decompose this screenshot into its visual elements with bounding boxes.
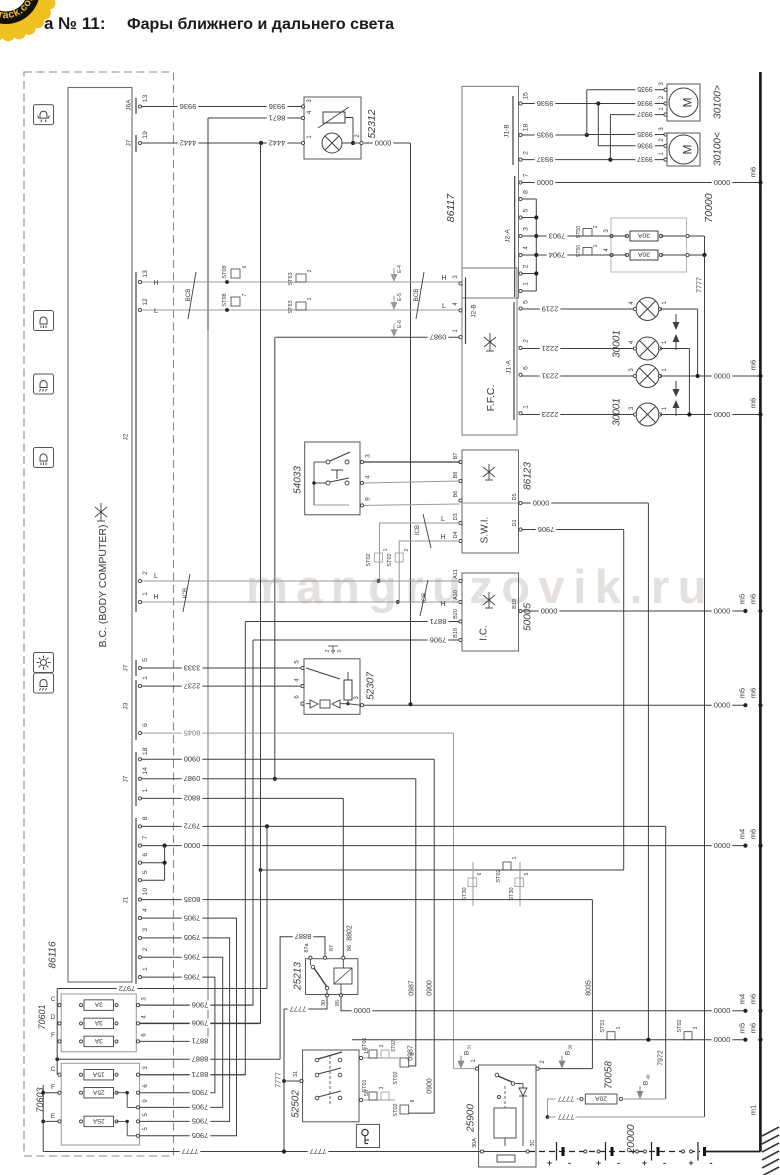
- junction dot 7972 branch: [265, 824, 269, 828]
- pin 9 output of fuse F2: [136, 1106, 139, 1109]
- svg-text:C: C: [51, 1066, 56, 1073]
- svg-text:86123: 86123: [523, 462, 534, 490]
- label 4442 right: [267, 138, 288, 147]
- junction dot 7906 link: [259, 868, 263, 872]
- fuse D 3A: [58, 1022, 61, 1025]
- cable marker ICB right: [420, 580, 428, 616]
- svg-text:8: 8: [142, 816, 149, 820]
- svg-text:+: +: [596, 1158, 601, 1168]
- pin B8 of SWI: [459, 479, 462, 482]
- svg-text:D3: D3: [453, 513, 459, 520]
- svg-text:7906: 7906: [538, 525, 555, 534]
- pin 10 of J1: [138, 898, 141, 901]
- lamp4 output wire 0000 to m6: [660, 414, 761, 416]
- svg-text:0: 0: [337, 649, 343, 652]
- label 8871 top: [267, 113, 288, 122]
- component 25900 relay box: [479, 1065, 536, 1167]
- connector J7 bracket mid: [135, 660, 137, 676]
- svg-text:8887: 8887: [295, 932, 312, 941]
- wires 7905 from J1 pins 4 3 2 1 wrapping to fuse box 70603: [140, 918, 237, 1136]
- relay contacts of 25213: [311, 965, 315, 969]
- wire 2223 to lamp4: [522, 414, 636, 416]
- svg-text:ST02: ST02: [677, 1019, 683, 1032]
- key icon box: [356, 1124, 379, 1147]
- svg-text:ST08: ST08: [222, 265, 228, 278]
- svg-text:1: 1: [142, 676, 149, 680]
- svg-text:54033: 54033: [293, 466, 304, 494]
- svg-text:2: 2: [142, 571, 149, 575]
- svg-text:2: 2: [379, 1044, 385, 1047]
- svg-text:8802: 8802: [184, 794, 201, 803]
- nodes m5 m6 bottom: [743, 1038, 747, 1042]
- svg-text:E-6: E-6: [397, 320, 403, 328]
- split of fuse F2 outputs: [117, 1092, 128, 1094]
- svg-text:87a: 87a: [304, 942, 310, 952]
- svg-text:8035: 8035: [184, 895, 201, 904]
- battery plus bus 7777: [43, 1151, 482, 1153]
- wire 8035 vertical down: [591, 900, 593, 1069]
- svg-text:ST08: ST08: [222, 293, 228, 306]
- pin 4 of J2-A: [519, 253, 522, 256]
- svg-text:36: 36: [568, 1044, 573, 1050]
- svg-text:M: M: [680, 98, 694, 108]
- B.C. body computer box 86116: [68, 88, 132, 983]
- svg-text:7: 7: [142, 835, 149, 839]
- svg-text:6: 6: [522, 366, 529, 370]
- svg-text:J2-B: J2-B: [470, 304, 477, 317]
- battery to chassis m1: [705, 1151, 761, 1153]
- svg-text:25A: 25A: [92, 1117, 104, 1124]
- svg-text:L: L: [154, 308, 158, 315]
- wire 8871 fuse F: [140, 1040, 209, 1042]
- connector ST01 pin3: [369, 1092, 377, 1100]
- cable marker ICB at SWI D3 D4: [423, 514, 431, 548]
- pin A10 of IC: [459, 600, 462, 603]
- svg-text:7: 7: [242, 293, 248, 296]
- wire 0000 from D5: [522, 502, 648, 504]
- switch contacts inside 54033: [326, 460, 330, 464]
- arrow E-6 on 0987 wire: [391, 323, 398, 337]
- pin 7 of J2-A: [519, 181, 522, 184]
- wire 8045 from J3 pin6: [142, 732, 454, 734]
- svg-text:5: 5: [524, 872, 530, 875]
- svg-text:8871: 8871: [430, 617, 447, 626]
- label 0000 after 52312: [373, 138, 394, 147]
- svg-text:7905: 7905: [184, 953, 201, 962]
- svg-text:ST01: ST01: [362, 1079, 368, 1092]
- svg-text:J2: J2: [122, 433, 129, 440]
- junction dot ignition feed: [282, 1079, 286, 1083]
- wire H from J2 pin1 to IC A10: [142, 601, 460, 603]
- svg-text:C: C: [51, 996, 56, 1003]
- svg-text:7906: 7906: [192, 1019, 209, 1028]
- svg-text:а № 11:: а № 11:: [44, 14, 105, 33]
- icon headlight 4: [34, 448, 54, 468]
- wire 7906 into IC B18: [253, 639, 460, 641]
- svg-text:1: 1: [142, 967, 149, 971]
- svg-text:9935: 9935: [637, 85, 653, 92]
- svg-text:3333: 3333: [184, 663, 201, 672]
- nodes m4 m6 lower: [743, 1009, 747, 1013]
- wire 4442 from J7 pin19 to 52312: [142, 142, 303, 144]
- svg-text:30100<: 30100<: [713, 132, 724, 166]
- wire from pin15 through ST01: [363, 1057, 399, 1059]
- svg-text:m6: m6: [749, 360, 758, 370]
- junction dot on H wire: [396, 600, 400, 604]
- pin 1 of J7 lower: [138, 797, 141, 800]
- wire 7972 to fuse rail: [57, 988, 267, 990]
- svg-text:5: 5: [142, 870, 149, 874]
- svg-text:7777: 7777: [558, 1112, 575, 1121]
- wire 9936 from J6A pin13 to 52312 pin3: [142, 106, 303, 108]
- svg-text:ST02: ST02: [393, 1103, 399, 1116]
- svg-text:30A: 30A: [637, 232, 650, 239]
- svg-text:J1-A: J1-A: [505, 360, 512, 374]
- svg-text:0900: 0900: [427, 1078, 434, 1094]
- svg-text:7905: 7905: [184, 933, 201, 942]
- svg-text:H: H: [441, 275, 446, 282]
- pin 15 of J1-B: [519, 102, 522, 105]
- svg-text:9935: 9935: [537, 130, 554, 139]
- svg-text:31: 31: [467, 1044, 472, 1050]
- labels 7905 fuse E: [190, 1117, 211, 1126]
- svg-text:25213: 25213: [293, 962, 304, 991]
- svg-text:m6: m6: [749, 398, 758, 408]
- svg-text:I.C.: I.C.: [479, 625, 490, 641]
- svg-text:ST01: ST01: [600, 1019, 606, 1032]
- svg-text:7972: 7972: [184, 822, 201, 831]
- pin bonding bus of J2-A: [522, 198, 536, 200]
- feed rail of 70603: [42, 1085, 44, 1152]
- svg-text:9937: 9937: [637, 110, 653, 117]
- wire 0000 from 52312 pin2: [364, 142, 411, 144]
- lamp3 output wire 0000 to m6: [660, 375, 761, 377]
- pin 6 output of fuse F2: [136, 1091, 139, 1094]
- fuse box 70601 outline: [61, 994, 136, 1052]
- pin D1 of SWI: [519, 528, 522, 531]
- svg-text:ST30: ST30: [462, 887, 468, 900]
- svg-text:+: +: [547, 1158, 552, 1168]
- svg-text:7905: 7905: [192, 1103, 209, 1112]
- pin 3 of 54033: [360, 460, 363, 463]
- pin 12 L of J2: [138, 308, 141, 311]
- svg-text:18: 18: [142, 747, 149, 755]
- svg-text:70601: 70601: [37, 1004, 47, 1029]
- ECU star symbol in F.F.C.: [484, 333, 496, 351]
- label 4442 left: [178, 138, 199, 147]
- pin 6 of J3: [138, 731, 141, 734]
- wire L from J2 pin2 to IC A11: [142, 580, 460, 582]
- pin 1 of J1: [138, 976, 141, 979]
- svg-text:0000: 0000: [714, 606, 731, 615]
- connector J6A bracket: [135, 98, 137, 114]
- wire to ignition switch pin 31: [284, 1080, 301, 1082]
- pin 5 of J7: [138, 666, 141, 669]
- pin 1 of 25900: [475, 1067, 478, 1070]
- svg-text:m6: m6: [749, 829, 758, 839]
- wire 8045 vertical down: [453, 733, 455, 1069]
- svg-text:8: 8: [410, 1099, 416, 1102]
- junction dot pins bond: [163, 844, 167, 848]
- svg-text:3C: 3C: [530, 1139, 536, 1146]
- svg-text:m6: m6: [749, 167, 758, 177]
- svg-text:ICB: ICB: [421, 593, 428, 603]
- svg-text:30: 30: [321, 1000, 327, 1006]
- relay coil of 25213: [334, 968, 352, 984]
- svg-text:J1: J1: [122, 896, 129, 903]
- svg-text:30A: 30A: [637, 251, 650, 258]
- connector J1-A bracket: [513, 302, 515, 420]
- svg-text:m6: m6: [749, 688, 758, 698]
- svg-text:ICB: ICB: [414, 525, 421, 535]
- labels 9935 9936 9937 at motor 1: [635, 85, 654, 94]
- pin 5 of J2-A: [519, 216, 522, 219]
- svg-text:A11: A11: [453, 569, 459, 578]
- pin B6 of SWI: [459, 499, 462, 502]
- svg-text:E-5: E-5: [397, 293, 403, 301]
- svg-text:2: 2: [307, 269, 313, 272]
- svg-text:15: 15: [522, 92, 529, 100]
- svg-text:8871: 8871: [269, 113, 286, 122]
- svg-text:J2-A: J2-A: [504, 229, 511, 243]
- pin 3 output of fuse C: [136, 1004, 139, 1007]
- component 25213 relay box: [306, 959, 358, 995]
- connector ST01 pin2: [369, 1050, 377, 1058]
- svg-text:2221: 2221: [542, 344, 559, 353]
- pin 1 of J2-A: [519, 289, 522, 292]
- fuse F2 25A: [41, 1091, 45, 1095]
- svg-text:7905: 7905: [184, 913, 201, 922]
- svg-text:6: 6: [242, 265, 248, 268]
- svg-text:9936: 9936: [637, 141, 653, 148]
- svg-text:4: 4: [522, 246, 529, 250]
- svg-text:0987: 0987: [184, 774, 201, 783]
- svg-text:30100>: 30100>: [713, 85, 724, 119]
- pin 5 of J1-A: [519, 307, 522, 310]
- wire 0987 corner down: [274, 337, 276, 779]
- wire 0000 D5 vertical down: [647, 503, 649, 1040]
- svg-text:7904: 7904: [549, 250, 566, 259]
- wire 0987 vertical down: [415, 779, 417, 1066]
- wire 7906 vertical to fuse D: [260, 143, 262, 1023]
- svg-text:B: B: [642, 1081, 649, 1085]
- pin D3 of SWI: [459, 521, 462, 524]
- pin 87a of 25213: [309, 956, 312, 959]
- svg-text:2: 2: [522, 151, 529, 155]
- wire 54033 pin3 to SWI B7: [364, 461, 460, 463]
- fuse C2 15A: [58, 1073, 61, 1076]
- svg-text:4: 4: [364, 475, 371, 479]
- junction dot 8887 at rail: [55, 1057, 59, 1061]
- beam direction arrow up lamp4: [673, 400, 680, 416]
- svg-text:F: F: [51, 1032, 55, 1039]
- svg-text:2237: 2237: [184, 681, 201, 690]
- diode of 25900: [519, 1088, 527, 1096]
- wire 7906 fuse C: [140, 1004, 254, 1006]
- component 54033 switch box: [305, 442, 360, 515]
- junction dot D5 wire at bottom: [646, 1038, 650, 1042]
- svg-text:0000: 0000: [714, 701, 731, 710]
- wire 7777 from relay 30: [284, 997, 327, 1009]
- wire 8887 vertical and into relay 87: [280, 937, 325, 1060]
- svg-text:86: 86: [347, 945, 353, 951]
- svg-text:ST63: ST63: [288, 300, 294, 313]
- svg-text:0000: 0000: [541, 606, 558, 615]
- svg-text:F.F.C.: F.F.C.: [485, 385, 497, 412]
- pin 1 of J2-B: [459, 336, 462, 339]
- arrow B31: [458, 1056, 465, 1069]
- svg-text:D5: D5: [512, 493, 518, 500]
- pin 19 of J7: [138, 141, 141, 144]
- ground wire 0000 to m5 m6 bottom: [352, 1039, 745, 1041]
- svg-text:3A: 3A: [94, 1019, 103, 1026]
- svg-text:0000: 0000: [375, 138, 392, 147]
- pin 2 of 25900: [536, 1067, 539, 1070]
- battery bus through relay: [484, 1151, 527, 1153]
- internal wiring of 52312: [345, 117, 353, 119]
- component 52312 headlamp unit box: [304, 97, 361, 159]
- svg-text:H: H: [440, 534, 445, 541]
- svg-text:7972: 7972: [658, 1050, 665, 1066]
- wire 0987 corner to ST02-5: [409, 1065, 416, 1067]
- wire 0987 into J2-B pin1: [275, 336, 460, 338]
- svg-text:30A: 30A: [472, 1138, 478, 1148]
- fuse 30A lower: [610, 253, 613, 256]
- wire 7777 horizontal from 70000: [548, 1116, 705, 1118]
- svg-text:50005: 50005: [523, 603, 534, 631]
- svg-text:m6: m6: [749, 994, 758, 1004]
- svg-text:H: H: [440, 601, 445, 608]
- svg-text:4: 4: [142, 908, 149, 912]
- connector ST02 pin2 at ignition: [381, 1050, 389, 1058]
- pin 3 of J1: [138, 936, 141, 939]
- fuse E 25A: [41, 1120, 45, 1124]
- connector J2-A bracket: [514, 176, 516, 297]
- svg-text:9937: 9937: [637, 155, 653, 162]
- wire 8871 horizontal into 52312 pin4: [208, 117, 303, 119]
- svg-text:0000: 0000: [184, 841, 201, 850]
- svg-text:7972: 7972: [119, 984, 136, 993]
- svg-text:3: 3: [693, 1026, 699, 1029]
- svg-text:0900: 0900: [427, 980, 434, 996]
- pin 3 output of fuse C2: [136, 1073, 139, 1076]
- svg-text:2231: 2231: [542, 371, 559, 380]
- svg-text:0000: 0000: [537, 178, 554, 187]
- pin 6 of 52307: [301, 702, 304, 705]
- svg-text:2: 2: [522, 339, 529, 343]
- svg-text:3: 3: [379, 1086, 385, 1089]
- connector J3 bracket: [135, 680, 137, 740]
- pin B18 of IC: [459, 638, 462, 641]
- svg-text:0987: 0987: [409, 980, 416, 996]
- svg-text:7903: 7903: [549, 231, 566, 240]
- connector ST30 pin5: [519, 862, 521, 906]
- svg-text:85: 85: [335, 1000, 341, 1006]
- svg-text:70058: 70058: [604, 1061, 615, 1089]
- wire 9935 J1-B pin18 to motor2 pin3: [522, 134, 587, 136]
- svg-text:ST02: ST02: [393, 1071, 399, 1084]
- svg-text:0000: 0000: [714, 178, 731, 187]
- svg-text:8887: 8887: [192, 1055, 209, 1064]
- connector J7 bracket top: [135, 135, 137, 152]
- chassis ground hatching m1: [762, 1127, 779, 1175]
- split of fuse E outputs: [117, 1120, 128, 1122]
- connector J2 bracket: [135, 272, 137, 612]
- svg-text:7777: 7777: [697, 277, 704, 293]
- svg-text:D4: D4: [453, 531, 459, 538]
- svg-text:0000: 0000: [714, 1035, 731, 1044]
- svg-text:m5: m5: [738, 1023, 747, 1033]
- svg-text:S.W.I.: S.W.I.: [480, 517, 491, 544]
- wire 8887 horizontal from fuse rail: [57, 1058, 280, 1060]
- svg-text:0000: 0000: [714, 1006, 731, 1015]
- component F.F.C. box: [462, 268, 517, 435]
- wire 7972 from fuse 70058: [623, 1098, 666, 1100]
- arrow E-4 on H wire: [391, 268, 398, 282]
- svg-text:7: 7: [522, 173, 529, 177]
- pin 6 of J1-A: [519, 373, 522, 376]
- connector ST63 pin2 on H wire: [296, 274, 306, 282]
- resistor of 25900: [497, 1155, 515, 1162]
- svg-text:8045: 8045: [184, 728, 201, 737]
- lamp2 output wire and branch down: [660, 348, 689, 350]
- cable marker BCB left: [188, 272, 196, 319]
- svg-text:ST30: ST30: [509, 887, 515, 900]
- component I.C. box 50005: [462, 573, 519, 651]
- wire 0000 vertical down to ground node: [410, 143, 412, 704]
- svg-text:m5: m5: [738, 688, 747, 698]
- wire 9935 branch up: [586, 90, 588, 135]
- connector ST30 pin6: [472, 862, 474, 906]
- wire 2221 to lamp2: [522, 348, 636, 350]
- pin 2 L of J2: [138, 579, 141, 582]
- svg-text:D: D: [51, 1014, 56, 1021]
- svg-text:L: L: [441, 516, 445, 523]
- svg-text:7777: 7777: [558, 1094, 575, 1103]
- svg-text:7777: 7777: [276, 1072, 283, 1088]
- pin 3 of J2-A: [519, 234, 522, 237]
- svg-text:ICB: ICB: [182, 588, 189, 598]
- wiper blade of 52307: [306, 668, 340, 679]
- svg-text:H: H: [153, 594, 158, 601]
- cable marker ICB left: [183, 574, 190, 612]
- wire 8871 vertical to fuse box 70603: [140, 622, 246, 1075]
- svg-text:ST02: ST02: [366, 553, 372, 566]
- ECU star symbol in IC: [483, 592, 495, 608]
- svg-text:D1: D1: [512, 519, 518, 526]
- svg-text:5: 5: [522, 300, 529, 304]
- pin B19 of IC: [519, 609, 522, 612]
- wire 8871 fuse C2: [140, 1074, 246, 1076]
- pin 50 of 52502: [359, 1098, 362, 1101]
- wire 8871 into IC B20: [245, 621, 460, 623]
- svg-text:0000: 0000: [714, 410, 731, 419]
- fuse 30A upper: [610, 234, 613, 237]
- nodes m5 m6 ground mid: [743, 703, 747, 707]
- svg-text:2: 2: [142, 947, 149, 951]
- svg-text:7777: 7777: [310, 1147, 327, 1156]
- svg-text:m5: m5: [738, 594, 747, 604]
- cable marker BCB right: [416, 272, 424, 319]
- pin 8 of J2-A: [519, 197, 522, 200]
- svg-text:ST50: ST50: [576, 245, 582, 258]
- svg-text:3: 3: [364, 454, 371, 458]
- pin 31 of 52502: [300, 1079, 303, 1082]
- pin 4 of 52307: [301, 685, 304, 688]
- svg-text:3: 3: [142, 928, 149, 932]
- pin D4 of SWI: [459, 539, 462, 542]
- ground wire 0000 from 52307 pin3 to m5 m6: [364, 704, 745, 706]
